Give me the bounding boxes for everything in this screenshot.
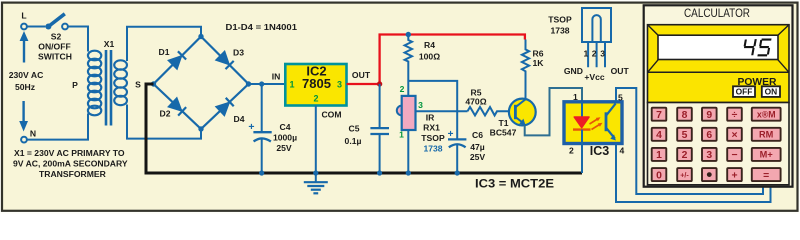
resistor R6 (522, 40, 529, 100)
wire: RX1 out to R5 (416, 110, 468, 112)
svg-text:S: S (135, 80, 141, 90)
calculator bezel diagonals (648, 26, 788, 72)
svg-text:1738: 1738 (423, 144, 442, 154)
diode D4 (216, 98, 233, 115)
switch S2 pivot (45, 24, 51, 30)
wire: +5V red rail (347, 35, 525, 85)
TSOP pinout pins (588, 42, 605, 67)
svg-text:50Hz: 50Hz (15, 82, 35, 92)
diode D3 (216, 52, 233, 69)
wire: RX1 pin1 to ground rail (407, 130, 409, 173)
wire: IC2 COM to ground rail (315, 106, 317, 183)
svg-text:COM: COM (321, 110, 341, 120)
switch S2 contact (62, 24, 68, 30)
button 2 (677, 148, 692, 161)
svg-text:OUT: OUT (352, 70, 371, 80)
svg-text:+Vсс: +Vсс (584, 72, 605, 82)
svg-text:1: 1 (399, 130, 404, 140)
node COM rail (313, 170, 318, 175)
wire: IC3 pin4 to calculator equals (616, 144, 771, 203)
button x-to-M (752, 108, 781, 121)
button 4 (652, 128, 667, 141)
resistor R4 (405, 35, 412, 96)
svg-text:D4: D4 (234, 114, 245, 124)
wire: Vs branch to C6 (408, 81, 457, 139)
button RM (752, 128, 781, 141)
svg-text:X1: X1 (104, 39, 115, 49)
svg-text:4: 4 (620, 146, 625, 156)
svg-text:X1 = 230V AC PRIMARY TO: X1 = 230V AC PRIMARY TO (14, 148, 125, 158)
svg-text:2: 2 (400, 84, 405, 94)
svg-text:2: 2 (592, 49, 597, 59)
svg-text:25V: 25V (276, 143, 292, 153)
node bridge bottom (198, 126, 203, 131)
button 9 (702, 108, 717, 121)
svg-text:GND: GND (564, 66, 583, 76)
calculator yellow panel (648, 25, 790, 103)
svg-text:100Ω: 100Ω (419, 52, 440, 62)
optocoupler IC3 box (564, 102, 622, 144)
wire: switch to transformer primary top (68, 27, 88, 52)
svg-text:P: P (72, 80, 78, 90)
IC3 LED (581, 102, 583, 117)
svg-text:TSOP: TSOP (421, 133, 445, 143)
node OUT/C5 tap (377, 81, 382, 86)
wire: T1 emitter to IC3 pin1 (525, 88, 582, 135)
node C4 ground (259, 170, 264, 175)
svg-text:C5: C5 (349, 124, 360, 134)
button minus (727, 148, 742, 161)
switch S2 lever (48, 14, 64, 27)
node bridge top (198, 34, 203, 39)
svg-text:R4: R4 (424, 40, 435, 50)
svg-text:D1-D4 = 1N4001: D1-D4 = 1N4001 (226, 22, 298, 32)
node RX1 ground (406, 170, 411, 175)
node R4 top (406, 32, 411, 37)
terminal L (21, 24, 27, 30)
svg-text:S2: S2 (51, 32, 62, 42)
diode D2 (169, 98, 186, 115)
svg-text:C4: C4 (280, 122, 291, 132)
svg-text:47µ: 47µ (470, 142, 485, 152)
svg-text:CALCULATOR: CALCULATOR (684, 6, 750, 20)
display digits 45 (743, 39, 772, 55)
button divide (727, 108, 742, 121)
wire: L line from terminal to switch (27, 26, 46, 28)
svg-text:1: 1 (289, 80, 294, 90)
IC3 LED arrows (590, 119, 598, 124)
svg-text:OFF: OFF (736, 87, 753, 97)
IR receiver module RX1 body (397, 106, 402, 116)
button plus (727, 168, 742, 181)
svg-text:1K: 1K (533, 58, 545, 68)
svg-text:7: 7 (656, 110, 662, 121)
svg-text:6: 6 (706, 130, 712, 141)
wire: IC3 pin2 to ground rail (581, 144, 583, 174)
button OFF (733, 86, 755, 97)
arrow mains neutral (22, 101, 24, 122)
arrow mains live (23, 41, 25, 63)
svg-text:+: + (731, 170, 737, 181)
svg-text:BC547: BC547 (490, 128, 517, 138)
button 3 (702, 148, 717, 161)
svg-text:3: 3 (418, 100, 423, 110)
svg-text:TSOP: TSOP (548, 15, 572, 25)
svg-text:D3: D3 (233, 48, 244, 58)
svg-text:1000µ: 1000µ (273, 133, 297, 143)
svg-text:M+: M+ (760, 150, 773, 160)
svg-text:5: 5 (682, 130, 688, 141)
regulator IC2 7805 box (285, 64, 346, 106)
capacitor C6 (448, 138, 466, 140)
svg-text:230V AC: 230V AC (9, 70, 44, 80)
svg-text:470Ω: 470Ω (465, 97, 486, 107)
keypad buttons (652, 108, 781, 182)
wire: IC3 pin5 to calculator equals (616, 88, 763, 194)
svg-text:×: × (731, 130, 737, 141)
button 7 (652, 108, 667, 121)
TSOP pinout diagram box (582, 8, 611, 42)
diode D1 (169, 51, 186, 68)
svg-text:0.1µ: 0.1µ (345, 136, 362, 146)
svg-text:IN: IN (272, 72, 281, 82)
svg-text:÷: ÷ (732, 110, 738, 121)
IC3 phototransistor (605, 112, 608, 131)
svg-text:OUT: OUT (611, 66, 630, 76)
capacitor C5 (379, 84, 381, 128)
wire: secondary top to bridge AC top (127, 27, 201, 61)
node C5 ground (377, 170, 382, 175)
svg-text:3: 3 (600, 49, 605, 59)
svg-text:3: 3 (337, 80, 342, 90)
svg-text:+: + (448, 129, 454, 140)
svg-text:−: − (731, 150, 737, 161)
transformer X1 core (106, 50, 111, 126)
button equals (752, 168, 781, 181)
node bridge right (246, 81, 251, 86)
svg-text:R6: R6 (533, 49, 544, 59)
svg-text:+: + (248, 121, 254, 133)
button 0 (652, 168, 667, 181)
svg-text:IC3 = MCT2E: IC3 = MCT2E (475, 177, 554, 191)
button 8 (677, 108, 692, 121)
capacitor C4 (261, 84, 263, 132)
svg-text:ON: ON (765, 87, 778, 97)
svg-text:+/-: +/- (680, 171, 689, 180)
svg-text:T1: T1 (498, 118, 508, 128)
svg-text:RX1: RX1 (423, 123, 440, 133)
svg-text:2: 2 (569, 146, 574, 156)
transistor T1 (509, 99, 536, 126)
svg-text:IC3: IC3 (590, 144, 610, 158)
node C6 ground (455, 170, 460, 175)
svg-text:0: 0 (656, 170, 662, 181)
svg-text:=: = (763, 170, 769, 181)
button 6 (702, 128, 717, 141)
svg-text:4: 4 (656, 130, 662, 141)
calculator keypad panel (648, 103, 790, 185)
svg-text:9: 9 (706, 110, 712, 121)
button dot (702, 168, 717, 181)
wire: bridge + output to IC2 IN (251, 83, 285, 85)
svg-text:2: 2 (313, 94, 318, 104)
svg-text:8: 8 (682, 110, 688, 121)
svg-text:1: 1 (573, 92, 578, 102)
svg-text:SWITCH: SWITCH (38, 52, 72, 62)
svg-text:C6: C6 (472, 130, 483, 140)
svg-text:1: 1 (584, 49, 589, 59)
svg-text:RM: RM (759, 130, 774, 140)
wire: N terminal to primary bottom (27, 114, 88, 140)
bridge rectifier wires (154, 37, 249, 130)
svg-text:7805: 7805 (302, 76, 331, 91)
transformer X1 primary winding (88, 51, 101, 116)
button 1 (652, 148, 667, 161)
svg-text:D2: D2 (160, 109, 171, 119)
svg-text:25V: 25V (470, 152, 486, 162)
svg-text:1: 1 (656, 150, 662, 161)
svg-text:L: L (21, 11, 26, 21)
terminal N (21, 137, 27, 143)
svg-text:1738: 1738 (550, 26, 569, 36)
svg-text:D1: D1 (159, 47, 170, 57)
svg-text:x®M: x®M (757, 109, 776, 119)
wire: secondary bottom to bridge AC bottom (127, 105, 201, 139)
button multiply (727, 128, 742, 141)
calculator body (644, 5, 793, 186)
svg-text:9V AC, 200mA SECONDARY: 9V AC, 200mA SECONDARY (13, 159, 128, 169)
button ON (762, 86, 780, 97)
button M+ (752, 148, 781, 161)
svg-text:2: 2 (682, 150, 688, 161)
svg-text:3: 3 (706, 150, 712, 161)
svg-text:5: 5 (618, 93, 623, 103)
ground symbol (304, 182, 328, 193)
button 5 (677, 128, 692, 141)
node bridge left (151, 81, 156, 86)
node C4 tap (259, 81, 264, 86)
transformer X1 secondary winding (114, 60, 127, 105)
svg-text:N: N (30, 129, 36, 139)
svg-text:IR: IR (426, 113, 435, 123)
svg-text:TRANSFORMER: TRANSFORMER (39, 169, 107, 179)
button plus-minus (677, 168, 692, 181)
resistor R5 (468, 107, 516, 115)
calculator display window (658, 35, 778, 59)
wire: negative rail (black) (146, 84, 582, 173)
svg-text:ON/OFF: ON/OFF (38, 42, 70, 52)
